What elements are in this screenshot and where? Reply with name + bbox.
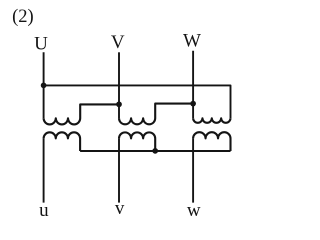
- node n junction dot on lower bus: [152, 148, 158, 154]
- svg-text:(2): (2): [12, 7, 34, 27]
- node W junction dot: [190, 101, 196, 107]
- inductor L6 secondary (bottom row, under W) with descender to lower bus: [193, 132, 230, 151]
- wire v stub: [118, 138, 120, 202]
- svg-text:V: V: [111, 32, 125, 53]
- wire lower bus: [80, 150, 230, 152]
- svg-text:u: u: [39, 200, 49, 221]
- node U junction dot: [41, 83, 47, 89]
- inductor L2 primary (top row, under V) with riser and link to W node: [119, 104, 193, 125]
- svg-text:W: W: [183, 31, 201, 52]
- wire U vertical: [43, 52, 45, 118]
- wire w stub: [192, 138, 194, 202]
- inductor L5 secondary (bottom row, under V) with descender to lower bus: [119, 132, 155, 151]
- inductor L3 primary (top row, under W): [193, 118, 230, 122]
- node V junction dot: [116, 101, 122, 107]
- wire u stub: [43, 138, 45, 202]
- wire V vertical: [118, 52, 120, 118]
- inductor L4 secondary (bottom row, under U) with descender to lower bus: [44, 132, 81, 151]
- svg-text:v: v: [115, 198, 125, 219]
- svg-text:U: U: [34, 33, 48, 54]
- inductor L1 primary (top row, under U) with riser and link to V node: [44, 104, 119, 124]
- wire top bus from U to right corner down into coil L3: [44, 85, 231, 118]
- svg-text:w: w: [187, 200, 201, 221]
- wire W vertical: [192, 51, 194, 119]
